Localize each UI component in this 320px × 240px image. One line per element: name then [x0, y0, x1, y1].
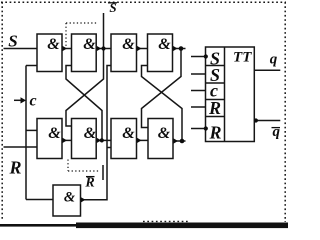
wire inverted clock to G7 [107, 147, 111, 149]
dotted R-bar pointer horizontal [68, 170, 100, 172]
arrow G5 output [63, 138, 68, 143]
dotted S-bar pointer vertical [65, 23, 67, 46]
TT input stub 5 [191, 128, 206, 130]
dotted R-bar pointer vertical [67, 160, 69, 172]
svg-text:&: & [47, 36, 60, 53]
svg-text:&: & [48, 125, 61, 142]
wire G8 feedback up to G4 [142, 66, 183, 142]
node G8 out dot [180, 139, 185, 144]
wire c input arrow shaft [14, 99, 22, 101]
border bottom dotted remnant [143, 220, 190, 222]
arrow G8 output [174, 138, 179, 143]
wire R-bar tick [102, 165, 104, 180]
svg-text:R: R [208, 123, 221, 143]
wire S input [4, 48, 38, 50]
border left dotted [1, 2, 3, 219]
TT input stub 1 [191, 56, 206, 58]
svg-text:S: S [8, 32, 17, 51]
wire S-bar stub and feedback down [66, 13, 104, 126]
border bottom thin line left [0, 224, 80, 227]
svg-text:R: R [208, 98, 221, 118]
border top dotted [1, 1, 286, 3]
arrow G3 output [137, 46, 142, 51]
wire c rail to G5 upper input [26, 129, 37, 131]
wire G3 out to G4 in [137, 48, 148, 50]
gate G4 box [148, 34, 173, 72]
svg-text:&: & [122, 36, 135, 53]
wire q output [254, 69, 280, 71]
arrow G4 output [173, 46, 178, 51]
gate G1 box [37, 34, 62, 72]
gate G9 box [53, 185, 81, 216]
svg-text:&: & [64, 190, 76, 206]
svg-text:&: & [83, 36, 96, 53]
svg-text:R: R [84, 176, 94, 191]
gate G3 box [111, 34, 137, 72]
dotted S-bar pointer horizontal [66, 22, 98, 24]
svg-text:q: q [270, 52, 278, 68]
svg-text:q: q [273, 124, 281, 140]
wire G6 out to G7 in [96, 139, 111, 141]
node S-bar junction dot [101, 46, 105, 50]
arrow G7 output [137, 138, 142, 143]
TT divider vertical [224, 47, 226, 142]
wire G7 out to G8 in [137, 139, 149, 141]
border right dotted [284, 2, 286, 222]
svg-text:&: & [122, 125, 135, 142]
gate G2 box [72, 34, 97, 72]
arrow G9 output [81, 197, 86, 202]
TT row divider 4 [206, 116, 225, 118]
wire G8 out tail [173, 140, 186, 142]
arrow c input head [21, 97, 27, 103]
node q-bar dot [254, 118, 258, 122]
svg-text:&: & [84, 125, 97, 142]
flip-flop TT box [206, 47, 255, 142]
TT input stub 2 [191, 73, 206, 75]
wire G6 feedback up to G2 [66, 66, 102, 141]
TT input stub 4 [191, 106, 206, 108]
wire c rail to G9 input [26, 199, 53, 201]
wire R input [4, 146, 38, 148]
wire G1 out to G2 in [62, 48, 72, 50]
wire q-bar output [254, 120, 280, 122]
gate G7 box [111, 119, 137, 159]
overline R-bar [86, 176, 95, 178]
wire c rail to G1 lower input [26, 65, 37, 67]
gate G6 box [72, 119, 97, 159]
node G4 out dot [179, 46, 184, 51]
TT row divider 1 [206, 65, 225, 67]
svg-text:&: & [158, 36, 171, 53]
gate G8 box [148, 119, 173, 159]
gate G5 box [37, 119, 62, 159]
overline q-bar [272, 127, 281, 129]
wire G2 out to G3 in [96, 48, 111, 50]
svg-text:TT: TT [233, 50, 252, 66]
node G6 out dot [100, 138, 104, 142]
wire G5 out to G6 in [62, 139, 72, 141]
wire G4 out tail [173, 48, 186, 50]
TT input stub 3 [191, 90, 206, 92]
TT row divider 2 [206, 82, 225, 84]
node TT stub5 dot [204, 126, 208, 130]
TT row divider 3 [206, 99, 225, 101]
node TT stub1 dot [204, 54, 208, 58]
arrow G1 output [63, 46, 68, 51]
svg-text:c: c [29, 93, 36, 110]
overline S-bar [108, 2, 117, 4]
svg-text:&: & [158, 125, 171, 142]
arrow G2 output [97, 46, 102, 51]
wire c rail vertical [25, 66, 27, 200]
wire G9 out inverted clock [81, 66, 112, 200]
arrow G6 output [97, 138, 102, 143]
wire G4 feedback down to G8 [142, 49, 182, 128]
svg-text:R: R [8, 158, 21, 178]
border bottom black bar [76, 223, 288, 229]
